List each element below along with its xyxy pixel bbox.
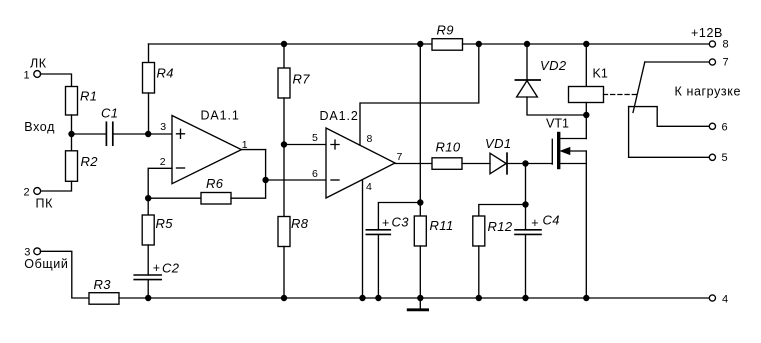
resistor R4 [143,63,155,94]
svg-text:K1: K1 [593,67,608,81]
svg-text:R9: R9 [437,23,454,38]
svg-text:C3: C3 [392,215,410,230]
wire pin5 to DA1.2 [284,144,326,146]
wire C3 to bottom rail [377,235,379,298]
svg-text:7: 7 [397,151,403,163]
capacitor C3 [366,230,390,235]
op-amp DA1.2 plus sign [331,140,339,149]
ground [408,298,427,310]
wire gate node down [525,164,527,205]
svg-text:+: + [382,216,390,230]
svg-text:2: 2 [24,186,30,198]
wire C2 to bottom rail [147,280,149,298]
node R5 R6 pin2 junction [145,195,151,201]
wire DA1.1 output pin1 [241,149,265,151]
wire input node to C1 [72,133,106,135]
svg-text:8: 8 [367,133,373,145]
node output to pin6 junction [262,177,268,183]
svg-text:5: 5 [312,132,318,144]
diode VD1 [490,153,507,174]
wire rail corner down to R4 [148,44,150,63]
wire node to C4 [525,205,527,230]
wire rail to K1 coil [585,44,587,87]
svg-text:6: 6 [312,168,318,180]
svg-text:ПК: ПК [36,197,54,211]
resistor R12 [473,216,485,246]
svg-text:R4: R4 [157,66,174,81]
svg-text:R7: R7 [293,72,311,87]
svg-text:Вход: Вход [24,120,55,134]
wire to DA1.2 pin6 [266,179,326,181]
svg-text:VD1: VD1 [485,136,512,151]
switch fixed contact to terminal 6 [629,107,710,127]
terminal 2 (PK) [34,188,41,195]
wire to R12 [479,205,526,217]
resistor R9 [432,39,463,51]
svg-text:+: + [153,261,161,275]
op-amp DA1.1 minus sign [177,167,185,169]
terminal 4 [709,295,715,301]
wire VD1 to gate node [507,163,526,165]
wire terminal1 to R1 [40,74,71,87]
node pin3 junction [145,131,151,137]
node C3 branch junction [417,199,423,205]
svg-text:8: 8 [723,39,729,51]
node gate junction [522,160,528,166]
svg-text:C2: C2 [162,261,180,276]
terminal 3 (common) [34,248,41,255]
terminal 5 [709,154,715,160]
svg-text:R8: R8 [291,216,309,231]
wire terminal 7 to switch arm [645,61,710,63]
wire input node to R2 [71,134,73,151]
wire top rail left segment [149,43,433,45]
wire R2 to terminal 2 [40,181,71,191]
node R7 top rail junction [281,41,287,47]
wire VD2 anode to drain node [527,97,586,115]
relay coil K1 [569,87,604,103]
svg-text:4: 4 [722,293,728,305]
svg-text:ЛК: ЛК [30,57,47,71]
wire R8 to bottom rail [283,247,285,299]
node pin4 bottom rail junction [359,295,365,301]
svg-text:6: 6 [722,121,728,133]
svg-text:VT1: VT1 [546,117,569,131]
svg-text:R5: R5 [156,216,174,231]
wire divider down to R8 [283,145,285,217]
node pin5 divider junction [281,141,287,147]
wire DA1.2 output pin7 to R10 [395,163,432,165]
svg-text:R1: R1 [80,89,97,104]
wire rail to VD2 cathode [526,44,528,80]
wire rail to R7 [283,44,285,68]
wire R6 left [148,197,201,199]
wire DA1.2 pin4 to bottom rail [362,180,364,298]
terminal 7 [709,59,715,65]
svg-text:DA1.2: DA1.2 [320,109,359,123]
svg-text:1: 1 [242,139,248,151]
node C4 bottom rail junction [522,295,528,301]
node R8 bottom rail junction [281,295,287,301]
resistor R6 [201,193,231,205]
wire R11 branch from rail [419,44,421,216]
switch arm [633,62,645,113]
svg-text:Общий: Общий [24,257,68,271]
svg-text:DA1.1: DA1.1 [201,108,240,122]
wire terminal3 down to bottom rail [40,251,89,298]
node VD2 top rail junction [524,41,530,47]
resistor R10 [432,158,462,170]
diode VD2 [515,80,540,97]
svg-text:1: 1 [24,69,30,81]
wire R11 to bottom rail [419,246,421,298]
svg-text:2: 2 [160,156,166,168]
svg-text:R10: R10 [436,140,461,155]
node R9 right rail junction [476,41,482,47]
transistor VT1 [526,115,587,298]
switch contact to terminal 5 [629,107,710,158]
resistor R3 [89,293,119,305]
node C3 bottom rail junction [375,295,381,301]
wire C4 to bottom rail [525,235,527,298]
svg-text:3: 3 [160,121,166,133]
wire R4 to node 3 [148,93,150,134]
svg-text:+: + [531,216,539,230]
wire R7 to pin5 node [283,98,285,145]
svg-text:4: 4 [366,181,372,193]
wire top rail right segment to +12V terminal [463,43,710,45]
terminal 1 (LK) [34,71,41,78]
terminal 6 [709,123,715,129]
node VT1 source bottom rail junction [583,295,589,301]
svg-text:C4: C4 [543,213,560,228]
wire relay dashed link [604,94,638,96]
svg-text:+12В: +12В [691,26,723,40]
op-amp DA1.1 [172,116,241,184]
wire R5 to C2 [147,245,149,275]
wire K1 coil to drain node [585,103,587,116]
wire R10 to VD1 [462,163,490,165]
node R12 bottom rail junction [476,295,482,301]
node R12 C4 junction [522,201,528,207]
node K1 top rail junction [583,41,589,47]
svg-text:5: 5 [722,152,728,164]
node ground junction [417,295,423,301]
resistor R5 [142,198,154,245]
svg-text:R3: R3 [94,277,112,292]
wire C1 to node 3 [114,133,149,135]
svg-text:R2: R2 [81,154,99,169]
wire DA1.1 pin2 stub [148,168,172,198]
capacitor C1 [106,122,112,145]
node C2 bottom rail junction [145,295,151,301]
node input junction [68,131,74,137]
terminal 8 (+12V) [709,41,715,47]
svg-text:VD2: VD2 [540,58,567,73]
op-amp DA1.1 plus sign [177,129,185,138]
resistor R11 [414,216,426,246]
svg-text:C1: C1 [101,105,118,120]
resistor R7 [278,68,290,98]
op-amp DA1.2 minus sign [331,179,339,181]
op-amp DA1.2 [326,128,395,198]
wire R1 to input node [71,115,73,134]
node R11 top rail junction [417,41,423,47]
svg-text:К нагрузке: К нагрузке [675,85,742,99]
resistor R8 [278,217,290,247]
svg-text:R12: R12 [488,219,513,234]
wire C3 branch [378,203,420,230]
wire R12 to bottom rail [478,246,480,298]
wire DA1.2 pin8 to R9 right [360,44,479,145]
capacitor C2 [134,275,161,280]
svg-text:R6: R6 [206,176,224,191]
wire R6 right to output corner [231,150,266,199]
svg-text:7: 7 [723,57,729,69]
resistor R1 [66,87,78,116]
wire node3 to DA1.1 pin3 [148,133,172,135]
capacitor C4 [515,230,541,235]
resistor R2 [66,151,78,182]
node drain junction [583,112,589,118]
wire bottom rail [119,297,709,299]
svg-text:R11: R11 [430,218,454,233]
